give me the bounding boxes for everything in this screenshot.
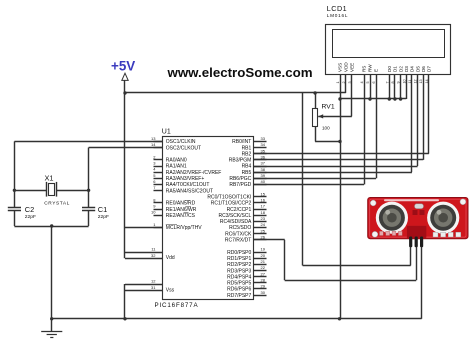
pin 19 RD0/PSP0 [253, 252, 266, 254]
wire +5V down to VDD pins [124, 93, 126, 258]
pin 18 RC3/SCK/SCL [253, 215, 266, 217]
svg-text:40: 40 [261, 179, 266, 184]
svg-text:RD5/PSP5: RD5/PSP5 [227, 281, 251, 287]
svg-text:37: 37 [261, 161, 266, 166]
svg-text:8: 8 [391, 81, 395, 83]
wire ground rail [52, 318, 422, 320]
svg-text:RC0/T1OSO/T1CKI: RC0/T1OSO/T1CKI [207, 194, 251, 200]
lcd pin 7 D0 [389, 75, 391, 84]
svg-text:RC2/CCP1: RC2/CCP1 [227, 207, 252, 213]
svg-text:36: 36 [261, 154, 266, 159]
capacitor C1 [88, 190, 90, 207]
pin 15 RC0/T1OSO/T1CKI [253, 196, 266, 198]
svg-text:PIC16F877A: PIC16F877A [155, 302, 199, 309]
wire MCLR to +5V [125, 227, 162, 229]
node capacitor midpoint [50, 224, 53, 227]
pin 22 RD3/PSP3 [253, 270, 266, 272]
node crystal left junction [13, 189, 16, 192]
node Vss junction [123, 317, 126, 320]
svg-text:13: 13 [151, 136, 156, 141]
svg-text:RD0/PSP0: RD0/PSP0 [227, 250, 251, 256]
svg-text:24: 24 [261, 222, 266, 227]
potentiometer RV1 [313, 109, 318, 127]
pin 13 OSC1/CLKIN [154, 141, 163, 143]
node RV1 ground junction [338, 140, 341, 143]
svg-text:VEE: VEE [350, 63, 355, 72]
pin overbars [166, 224, 177, 226]
lcd display area [333, 30, 445, 58]
wire RV1 bottom to ground line [315, 141, 340, 143]
wire ground bus [340, 98, 406, 100]
svg-text:RB7/PGD: RB7/PGD [229, 182, 251, 188]
svg-text:RC4/SDI/SDA: RC4/SDI/SDA [220, 219, 252, 225]
capacitor C2 [14, 190, 16, 207]
pin 9 RE1/AN6/WR [154, 209, 163, 211]
svg-text:13: 13 [419, 79, 423, 83]
svg-text:18: 18 [261, 210, 266, 215]
svg-text:11: 11 [408, 80, 412, 84]
node D1 junction [393, 97, 396, 100]
lcd pin 4 RS [364, 75, 366, 84]
pin 35 RB2 [253, 153, 266, 155]
svg-text:10: 10 [402, 79, 406, 83]
wire D3 to bus [406, 84, 408, 99]
pin 29 RD6/PSP6 [253, 288, 266, 290]
pin 27 RD4/PSP4 [253, 276, 266, 278]
wire sensor VCC to +5V rail [302, 93, 304, 266]
wire RB6 to LCD E [253, 178, 376, 180]
svg-text:1: 1 [336, 81, 340, 83]
lcd pin 13 D6 [423, 75, 425, 84]
svg-text:RC5/SDO: RC5/SDO [229, 225, 251, 231]
svg-text:RA2/AN2/VREF-/CVREF: RA2/AN2/VREF-/CVREF [166, 170, 222, 176]
pin 21 RD2/PSP2 [253, 264, 266, 266]
svg-text:6: 6 [372, 81, 376, 83]
svg-text:MCLR/Vpp/THV: MCLR/Vpp/THV [166, 225, 203, 231]
svg-text:12: 12 [414, 79, 418, 83]
pin 12 VSS [125, 284, 162, 286]
svg-text:RB6/PGC: RB6/PGC [229, 176, 251, 182]
pin 4 RA2/AN2/VREF-/CVREF [154, 172, 163, 174]
wire sensor GND to ground rail [421, 247, 423, 319]
wire +5V vertical to rail [124, 80, 126, 93]
svg-text:RD2/PSP2: RD2/PSP2 [227, 262, 251, 268]
pin 5 RA3/AN3/VREF+ [154, 178, 163, 180]
wire OSC1 to crystal [14, 141, 162, 143]
svg-text:100: 100 [322, 125, 330, 130]
svg-text:35: 35 [261, 148, 266, 153]
node VSS ground bus junction [338, 97, 341, 100]
svg-text:D4: D4 [410, 66, 415, 72]
svg-text:D5: D5 [415, 66, 420, 72]
svg-text:26: 26 [261, 234, 266, 239]
node D0 junction [388, 97, 391, 100]
svg-text:RE2/AN7/CS: RE2/AN7/CS [166, 213, 196, 219]
pin 7 RA5/AN4/SS/C2OUT [154, 190, 163, 192]
svg-text:19: 19 [261, 247, 266, 252]
svg-text:10: 10 [151, 210, 156, 215]
lcd pin 10 D3 [406, 75, 408, 84]
pin 34 RB1 [253, 147, 266, 149]
svg-text:5: 5 [366, 81, 370, 83]
pin 36 RB3/PGM [253, 159, 266, 161]
wire RB2 to LCD D7 [253, 153, 429, 155]
svg-text:D7: D7 [427, 66, 432, 72]
svg-text:27: 27 [261, 271, 266, 276]
wire VEE to RV1 wiper [351, 84, 353, 116]
svg-text:39: 39 [261, 173, 266, 178]
svg-text:38: 38 [261, 167, 266, 172]
lcd pin 2 VDD [345, 75, 347, 84]
svg-text:RD3/PSP3: RD3/PSP3 [227, 268, 251, 274]
svg-text:2: 2 [342, 81, 346, 83]
svg-text:7: 7 [385, 81, 389, 83]
wire +5V rail [125, 92, 346, 94]
svg-text:LCD1: LCD1 [327, 4, 347, 13]
svg-text:RB0/INT: RB0/INT [232, 139, 251, 145]
svg-text:33: 33 [261, 136, 266, 141]
wire D0 to bus [389, 84, 391, 99]
svg-text:4: 4 [360, 81, 364, 83]
wire D2 to bus [400, 84, 402, 99]
pin 24 RC5/SDO [253, 227, 266, 229]
svg-text:RD7/PSP7: RD7/PSP7 [227, 293, 251, 299]
crystal X1 [14, 190, 47, 192]
pin 3 RA1/AN1 [154, 166, 163, 168]
wire RB7 to LCD RS [253, 184, 364, 186]
lcd pin 3 VEE [351, 75, 353, 84]
svg-text:21: 21 [261, 259, 266, 264]
wire VSS to ground [124, 284, 126, 319]
svg-text:RA3/AN3/VREF+: RA3/AN3/VREF+ [166, 176, 205, 182]
svg-text:RB2: RB2 [242, 151, 252, 157]
svg-text:RC6/TX/CK: RC6/TX/CK [225, 231, 252, 237]
lcd pin 11 D4 [411, 75, 413, 84]
node ground rail left junction [50, 317, 53, 320]
svg-text:OSC2/CLKOUT: OSC2/CLKOUT [166, 145, 201, 151]
svg-text:23: 23 [261, 216, 266, 221]
sensor pin VCC [409, 237, 412, 248]
svg-text:Vss: Vss [166, 287, 175, 293]
svg-text:+5V: +5V [111, 59, 135, 74]
pin 20 RD1/PSP1 [253, 258, 266, 260]
svg-text:RS: RS [362, 66, 367, 72]
svg-text:RA1/AN1: RA1/AN1 [166, 164, 187, 170]
pin 10 RE2/AN7/CS [154, 215, 163, 217]
svg-text:U1: U1 [162, 128, 171, 135]
lcd pin 9 D2 [400, 75, 402, 84]
sensor pin SIG [415, 237, 418, 248]
pin 23 RC4/SDI/SDA [253, 221, 266, 223]
svg-text:22: 22 [261, 265, 266, 270]
svg-text:15: 15 [261, 191, 266, 196]
wire to ground rail [51, 226, 53, 319]
svg-text:VDD: VDD [344, 62, 349, 72]
lcd pin 5 RW [370, 75, 372, 84]
svg-text:RA0/AN0: RA0/AN0 [166, 158, 187, 164]
svg-text:D2: D2 [398, 66, 403, 72]
ultrasonic sensor module [368, 198, 468, 239]
svg-text:31: 31 [151, 285, 156, 290]
svg-text:C1: C1 [98, 205, 107, 214]
node +5V rail junction [123, 91, 126, 94]
pin 25 RC6/TX/CK [253, 233, 266, 235]
svg-text:16: 16 [261, 198, 266, 203]
svg-text:D1: D1 [393, 66, 398, 72]
pin 16 RC1/T1OSI/CCP2 [253, 202, 266, 204]
svg-text:D3: D3 [404, 66, 409, 72]
lcd pin 14 D7 [428, 75, 430, 84]
node LCD ground junction [338, 317, 341, 320]
wire OSC2 to crystal [89, 147, 163, 149]
wire VSS down to ground rail [340, 84, 342, 319]
node RW junction [368, 97, 371, 100]
svg-text:12: 12 [151, 279, 156, 284]
svg-text:CRYSTAL: CRYSTAL [44, 201, 70, 207]
pin 8 RE0/AN5/RD [154, 202, 163, 204]
pin 37 RB4 [253, 166, 266, 168]
svg-text:RB1: RB1 [242, 145, 252, 151]
svg-text:Vdd: Vdd [166, 255, 175, 261]
lcd pin 6 E [376, 75, 378, 84]
svg-text:9: 9 [397, 81, 401, 83]
svg-text:www.electroSome.com: www.electroSome.com [167, 65, 313, 80]
svg-text:17: 17 [261, 204, 266, 209]
microcontroller U1 PIC16F877A body [163, 137, 254, 300]
pin 11 VDD [125, 252, 162, 254]
svg-text:LM016L: LM016L [327, 13, 348, 18]
svg-text:RA5/AN4/SS/C2OUT: RA5/AN4/SS/C2OUT [166, 188, 213, 194]
lcd LCD1 LM016L body [326, 25, 451, 75]
svg-text:RE0/AN5/RD: RE0/AN5/RD [166, 201, 196, 207]
wire capacitor bottoms [14, 226, 88, 228]
lcd pin 8 D1 [394, 75, 396, 84]
pin 28 RD5/PSP5 [253, 282, 266, 284]
svg-text:RD6/PSP6: RD6/PSP6 [227, 287, 251, 293]
lcd pin 1 VSS [340, 75, 342, 84]
svg-text:RV1: RV1 [322, 103, 335, 110]
svg-text:30: 30 [261, 290, 266, 295]
svg-text:RB5: RB5 [242, 170, 252, 176]
svg-text:D6: D6 [421, 66, 426, 72]
pin 39 RB6/PGC [253, 178, 266, 180]
pin 14 OSC2/CLKOUT [154, 147, 163, 149]
pin 26 RC7/RX/DT [253, 239, 266, 241]
wire RB5 to LCD D4 [253, 172, 412, 174]
lcd pin 12 D5 [417, 75, 419, 84]
svg-text:OSC1/CLKIN: OSC1/CLKIN [166, 139, 196, 145]
node RV1 top junction [313, 91, 316, 94]
pin 40 RB7/PGD [253, 184, 266, 186]
svg-text:RB4: RB4 [242, 164, 252, 170]
svg-text:25: 25 [261, 228, 266, 233]
svg-text:RB3/PGM: RB3/PGM [229, 158, 252, 164]
wire VDD to +5V rail [345, 84, 347, 93]
wire D1 to bus [394, 84, 396, 99]
pin 38 RB5 [253, 172, 266, 174]
svg-text:29: 29 [261, 284, 266, 289]
node crystal right junction [87, 189, 90, 192]
pin 32 VDD [125, 258, 162, 260]
svg-text:32: 32 [151, 253, 156, 258]
pin 6 RA4/T0CKI/C1OUT [154, 184, 163, 186]
pin 2 RA0/AN0 [154, 159, 163, 161]
svg-text:14: 14 [425, 79, 429, 83]
svg-text:D0: D0 [387, 66, 392, 72]
svg-text:RD4/PSP4: RD4/PSP4 [227, 274, 251, 280]
pin 17 RC2/CCP1 [253, 209, 266, 211]
node D2 junction [399, 97, 402, 100]
svg-text:14: 14 [151, 142, 156, 147]
svg-text:VSS: VSS [338, 63, 343, 72]
svg-text:34: 34 [261, 142, 266, 147]
svg-text:RD1/PSP1: RD1/PSP1 [227, 256, 251, 262]
svg-text:RW: RW [368, 64, 373, 72]
wire RB4 to LCD D5 [253, 166, 417, 168]
pin 33 RB0/INT [253, 141, 266, 143]
pin 31 VSS [125, 290, 162, 292]
ground [51, 319, 53, 332]
sensor pin GND [420, 237, 423, 248]
svg-text:22pF: 22pF [25, 214, 36, 220]
svg-text:3: 3 [348, 81, 352, 83]
svg-text:C2: C2 [25, 205, 34, 214]
svg-text:20: 20 [261, 253, 266, 258]
wire RW to bus [370, 84, 372, 99]
wire RC7 to sensor signal [253, 239, 284, 241]
svg-text:RC3/SCK/SCL: RC3/SCK/SCL [219, 213, 252, 219]
wire RB3 to LCD D6 [253, 159, 423, 161]
svg-text:28: 28 [261, 277, 266, 282]
pin 1 MCLR/Vpp/THV [154, 227, 163, 229]
svg-text:RC7/RX/DT: RC7/RX/DT [225, 238, 251, 244]
svg-text:RE1/AN6/WR: RE1/AN6/WR [166, 207, 197, 213]
svg-text:RA4/T0CKI/C1OUT: RA4/T0CKI/C1OUT [166, 182, 210, 188]
pin 30 RD7/PSP7 [253, 295, 266, 297]
svg-text:X1: X1 [45, 173, 54, 182]
svg-text:E: E [374, 69, 379, 72]
svg-text:22pF: 22pF [98, 214, 109, 220]
svg-text:RC1/T1OSI/CCP2: RC1/T1OSI/CCP2 [211, 201, 252, 207]
